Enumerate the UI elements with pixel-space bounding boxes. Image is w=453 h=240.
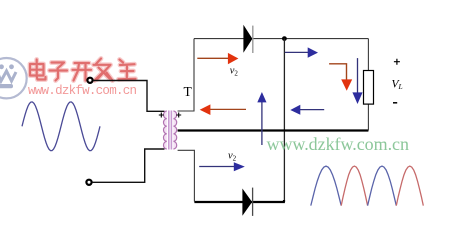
- load resistor RL: [364, 71, 374, 105]
- output waveform hump1 (blue): [311, 166, 341, 206]
- watermark logo W crown: [0, 64, 16, 88]
- diode D1 (top): [244, 27, 252, 52]
- svg-text:v2: v2: [228, 151, 237, 163]
- arrow v2 bottom (blue, right): [199, 162, 245, 171]
- output waveform hump2 (red): [341, 166, 367, 206]
- transformer core: [169, 111, 172, 150]
- svg-text:T: T: [184, 84, 193, 99]
- diode D2 (bottom): [243, 190, 252, 214]
- upper input terminal: [87, 78, 92, 83]
- svg-text:VL: VL: [392, 79, 403, 92]
- output waveform hump4 (red): [396, 166, 423, 206]
- wire: cathode vertical down to bottom rail: [283, 39, 285, 202]
- lower input terminal: [86, 180, 91, 185]
- watermark logo circle: [0, 58, 27, 98]
- label plus: [394, 59, 400, 65]
- wire: top rail: [194, 38, 368, 40]
- svg-text:www.dzkfw.com.cn: www.dzkfw.com.cn: [267, 134, 410, 154]
- wire: secondary bottom to bottom rail: [178, 150, 195, 201]
- wire: bottom rail (thick): [194, 200, 285, 202]
- wire: right rail upper: [367, 39, 369, 71]
- watermark text 电子开发网 (glow layer): [30, 59, 136, 81]
- svg-text:v2: v2: [230, 66, 239, 78]
- arrow current top-right (blue, right): [285, 47, 318, 57]
- transformer polarity + right: [176, 113, 181, 118]
- input sine wave: [22, 102, 100, 151]
- svg-text:www.dzkfw.com.cn: www.dzkfw.com.cn: [28, 84, 137, 98]
- transformer polarity + left: [159, 113, 164, 118]
- arrow mid-left (red, left): [200, 104, 246, 115]
- diode D2 cathode bar: [252, 188, 254, 216]
- arrow load (blue, down): [352, 58, 362, 104]
- arrow load elbow (red, down): [329, 64, 352, 91]
- arrow center (blue, up): [257, 92, 266, 145]
- junction node (cathodes): [282, 36, 287, 41]
- wire: center tap to load (thick): [178, 129, 369, 131]
- wire: right rail lower: [367, 104, 369, 130]
- transformer T primary winding: [163, 111, 166, 149]
- arrow mid-right (blue, left): [290, 105, 324, 115]
- wire: upper terminal to primary top: [93, 81, 165, 112]
- label minus: [393, 102, 397, 104]
- watermark text 电子开发网 (red layer): [30, 59, 136, 81]
- output waveform hump3 (blue): [368, 166, 397, 206]
- wire: lower terminal to primary bottom: [92, 149, 165, 182]
- arrow v2 top (red, right): [197, 53, 238, 64]
- transformer T secondary winding: [173, 111, 176, 149]
- wire: secondary top to box: [178, 39, 194, 111]
- diode D1 cathode bar: [252, 26, 254, 53]
